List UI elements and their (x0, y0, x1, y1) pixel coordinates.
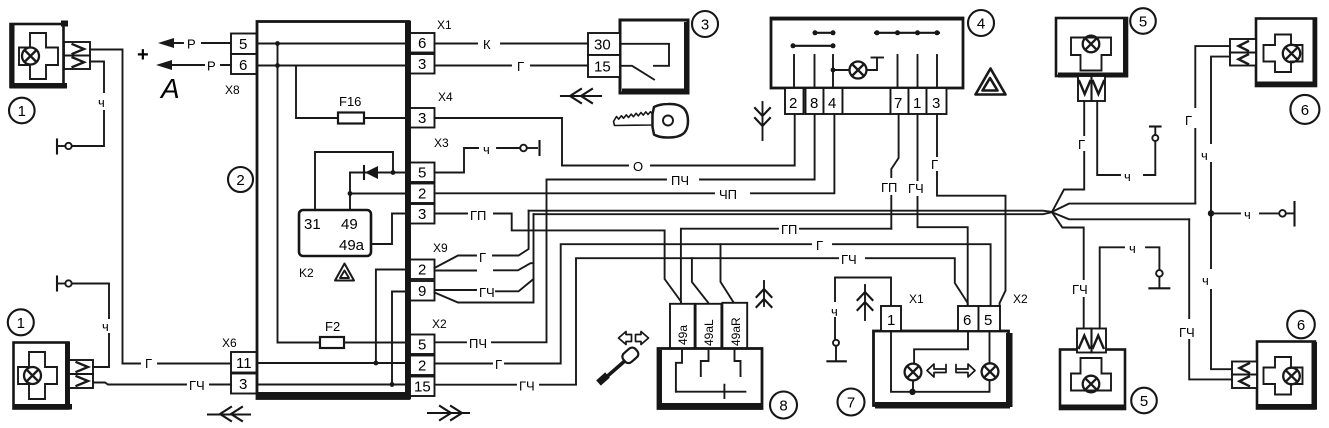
wire Г from hazard pin 3 to cluster X2:5 (931, 114, 1006, 306)
fan branch to side repeater 6 bottom (1052, 212, 1189, 219)
ignition switch 3 body (620, 20, 690, 94)
cluster connector X1 pin 1 (881, 292, 924, 331)
wire X4:3 to О line (435, 118, 563, 166)
fan branch to rear lamp 5 bottom (ГЧ) (1052, 212, 1084, 328)
svg-text:6: 6 (963, 312, 971, 329)
svg-text:6: 6 (239, 57, 247, 74)
svg-text:ГЧ: ГЧ (189, 378, 205, 393)
connector of lamp 5 top (1078, 76, 1105, 101)
svg-text:Г: Г (816, 238, 823, 253)
svg-text:ч: ч (1202, 273, 1209, 288)
svg-text:4: 4 (977, 16, 985, 33)
svg-text:2: 2 (789, 95, 797, 112)
instrument cluster 7 body (874, 331, 1013, 409)
wire relay 31 to X3:5 (315, 152, 393, 210)
rear lamp 5 (top) body (1056, 18, 1128, 78)
svg-text:4: 4 (828, 95, 836, 112)
svg-text:7: 7 (894, 95, 902, 112)
ground symbol (top-left) (57, 140, 72, 154)
key symbol (614, 104, 689, 138)
svg-text:49: 49 (341, 216, 358, 233)
wire X9:9 second branch (435, 279, 534, 303)
junction dot (275, 41, 280, 46)
svg-text:15: 15 (414, 379, 431, 396)
ignition pins 30,15 (588, 33, 620, 77)
turn signal switch 8: pins 49a,49aL,49aR (670, 303, 747, 349)
connector X8 pins 5,6 (225, 34, 257, 98)
svg-text:О: О (633, 159, 643, 174)
wire X9:9 to X2:15 line (inside) (392, 292, 410, 385)
svg-text:Г: Г (1185, 113, 1192, 128)
designator circle 2 (mounting block) (228, 167, 253, 192)
svg-text:3: 3 (418, 56, 426, 73)
wire ГП from hazard pin 7 down (881, 114, 899, 229)
svg-text:1: 1 (18, 103, 26, 120)
svg-text:5: 5 (1139, 14, 1147, 31)
svg-text:Г: Г (931, 157, 938, 172)
wire ч repeater 6 top to ground junction (1201, 57, 1232, 370)
svg-text:X2: X2 (432, 317, 447, 331)
connector of lamp 5 bottom (1077, 329, 1106, 353)
wire Г repeater 6 top (1185, 46, 1230, 204)
svg-text:9: 9 (418, 283, 426, 300)
svg-text:ГЧ: ГЧ (1179, 325, 1195, 340)
svg-text:ГП: ГП (470, 208, 486, 223)
connector of repeater 6 top (1230, 39, 1256, 66)
hazard switch lamp (831, 58, 883, 79)
svg-text:6: 6 (1301, 102, 1309, 119)
wire relay 49a to X3:3 (371, 214, 410, 245)
svg-text:11: 11 (236, 355, 252, 372)
connector of repeater 6 bottom (1232, 362, 1257, 389)
hazard switch 4 body (771, 18, 963, 89)
wire ЧП from X3:2 to hazard switch pin 4 (435, 114, 835, 202)
svg-text:3: 3 (932, 95, 940, 112)
cluster right arrow icon (956, 364, 975, 377)
designator circle 7 (838, 389, 865, 416)
wire Г from lamp1-top to X6:11 (long left vertical) (90, 50, 123, 364)
designator circle 8 (770, 392, 797, 419)
arrow continuation (up) near cluster 7 (858, 285, 873, 320)
ground symbol (near lamp 5 top) (1150, 127, 1161, 142)
switch 8 internal contacts (676, 349, 746, 399)
junction dot on 49 wire (348, 191, 353, 196)
wire F16 to X4:3 (364, 117, 410, 119)
cluster right indicator lamp (982, 363, 999, 380)
svg-text:Г: Г (495, 357, 502, 372)
designator circle 3 (692, 11, 718, 37)
svg-text:ч: ч (1129, 241, 1136, 256)
arrow continuation (up) near switch 8 (757, 281, 772, 307)
wire X6:3 to X2:15 (257, 384, 411, 386)
fuse F16 (338, 94, 364, 124)
svg-text:5: 5 (418, 165, 426, 182)
designator circle 1 (top) (9, 98, 35, 124)
designator circle 1 (bottom) (8, 309, 34, 335)
branch ГЧ to turn switch 49aL (692, 258, 708, 304)
svg-text:5: 5 (418, 337, 426, 354)
wire Г from X1:3 to ignition 15 (435, 59, 589, 74)
relay K2 (299, 210, 371, 280)
svg-text:ГП: ГП (881, 180, 897, 195)
arrow continuation below X6 (208, 407, 250, 421)
svg-text:2: 2 (418, 358, 426, 375)
wire ч lamp 5 top to ground (1097, 101, 1155, 184)
svg-text:2: 2 (236, 172, 244, 189)
turn stalk symbol (599, 332, 649, 384)
svg-text:49а: 49а (676, 325, 690, 345)
wire ГЧ to repeater 6 bottom (1179, 219, 1232, 379)
svg-text:X4: X4 (438, 90, 453, 104)
svg-text:X6: X6 (222, 336, 237, 350)
hazard switch pin stubs (794, 55, 937, 88)
svg-text:K2: K2 (299, 266, 314, 280)
wire ч lamp 5 bottom to ground (1100, 241, 1160, 329)
wire ГП from X3:3 to turn switch 49a (435, 208, 682, 304)
connector X9 pins 2,9 (410, 241, 448, 301)
svg-text:5: 5 (984, 312, 992, 329)
wire ч lamp1-bottom to ground (72, 284, 109, 368)
wire X8:5 to X1:6 (inside block) (257, 43, 411, 45)
svg-text:X1: X1 (437, 18, 452, 32)
mounting block 2 body (257, 21, 411, 399)
connector X3 pins 5,2,3 (410, 136, 449, 224)
svg-text:ч: ч (1124, 169, 1131, 184)
wire ч lamp1-top to ground (72, 62, 104, 147)
lamp 1 (front turn signal, bottom-left) (13, 342, 72, 410)
hazard switch contact bars with dots (791, 30, 940, 48)
svg-text:2: 2 (418, 186, 426, 203)
designator circle 5 (top) (1130, 8, 1156, 34)
svg-text:Р: Р (187, 37, 196, 52)
svg-text:5: 5 (1140, 393, 1148, 410)
fuse F2 (320, 319, 344, 348)
hazard triangle symbol (in block) (335, 264, 354, 281)
cluster left arrow icon (927, 364, 946, 377)
svg-text:ГП: ГП (781, 222, 797, 237)
wire F2 to X2:5 (344, 342, 410, 344)
svg-text:15: 15 (594, 59, 611, 76)
connector X6 pins 11,3 (222, 336, 257, 394)
designator circle 6 (bottom) (1287, 311, 1315, 339)
svg-text:ч: ч (1201, 148, 1208, 163)
svg-text:1: 1 (887, 312, 895, 329)
fan branch to rear lamp 5 top (Г) (1052, 101, 1084, 212)
svg-text:ч: ч (102, 319, 109, 334)
svg-text:К: К (483, 37, 491, 52)
wire X9:2 second branch (435, 263, 534, 270)
ground symbol (near lamp 5 bottom) (1149, 270, 1169, 288)
fan branch to side repeater 6 top (1052, 204, 1195, 212)
svg-text:49аR: 49аR (729, 317, 743, 346)
svg-text:ГЧ: ГЧ (479, 285, 495, 300)
junction dot (275, 63, 280, 68)
designator circle 5 (bottom) (1131, 388, 1157, 414)
svg-text:F2: F2 (325, 319, 340, 334)
wire ч cluster X1:1 to ground (827, 278, 891, 362)
arrow continuation left of ignition (561, 89, 601, 103)
svg-text:Г: Г (1078, 137, 1085, 152)
svg-text:ГЧ: ГЧ (1072, 282, 1088, 297)
connector X2 pins 5,2,15 (410, 317, 447, 396)
cluster left indicator lamp (905, 364, 922, 381)
connector X4 pin 3 (410, 90, 453, 128)
trunk wire A (Г) to right side fan (529, 211, 1052, 212)
junction dot X3:5 wire (391, 170, 396, 175)
rear lamp 5 (bottom) body (1060, 350, 1126, 410)
branch to fuse F16 (296, 66, 338, 119)
connector of lamp 1 top (64, 42, 90, 69)
svg-text:1: 1 (17, 315, 25, 332)
svg-text:ГЧ: ГЧ (519, 379, 535, 394)
designator circle 4 (968, 10, 994, 36)
wire X9:2 to X2:2 line (inside) (376, 270, 410, 364)
ground symbol (right, shared) (1211, 202, 1295, 226)
svg-text:X8: X8 (225, 83, 240, 97)
svg-text:Г: Г (479, 250, 486, 265)
svg-text:3: 3 (239, 376, 247, 393)
wire ПЧ from X2:5 to hazard pin 8 (435, 114, 815, 351)
svg-text:30: 30 (594, 37, 611, 54)
arrow continuation below block (428, 406, 469, 420)
svg-text:2: 2 (418, 262, 426, 279)
svg-text:Г: Г (517, 59, 524, 74)
wire Р (arrow to X8:6) (156, 59, 231, 74)
side repeater 6 (bottom) body (1257, 342, 1317, 410)
svg-text:ПЧ: ПЧ (671, 173, 689, 188)
hazard switch pin boxes 2,8,4,-,7,1,3 (785, 88, 947, 114)
wire ГЧ from X6:3 to lamp 1 bottom (93, 378, 231, 393)
ground symbol (bottom-left) (57, 277, 72, 291)
wire Г from X6:11 to left lamps (123, 356, 232, 371)
svg-text:Г: Г (145, 356, 152, 371)
hazard triangle symbol (large) (976, 69, 1006, 95)
ignition switch contact (620, 44, 669, 80)
trunk wire B (ГЧ) to right side fan (534, 212, 1053, 214)
wire К from X1:6 to ignition 30 (435, 37, 589, 52)
svg-text:X1: X1 (909, 292, 924, 306)
svg-text:8: 8 (810, 95, 818, 112)
wire Р (arrow to X8:5) (158, 37, 231, 52)
svg-text:ПЧ: ПЧ (469, 336, 487, 351)
connector of lamp 1 bottom (69, 360, 93, 388)
svg-text:ч: ч (831, 304, 838, 319)
svg-text:А: А (159, 73, 180, 104)
svg-text:F16: F16 (339, 94, 361, 109)
turn signal switch 8 body (658, 349, 762, 409)
designator circle 6 (top) (1290, 95, 1319, 124)
lamp 1 (front turn signal, top-left) (10, 21, 68, 89)
cluster internal wiring (891, 331, 990, 395)
svg-text:X9: X9 (433, 241, 448, 255)
wire X9:2 split to trunk (Г) (435, 211, 529, 268)
wire X9:9 split to trunk (ГЧ) (435, 214, 534, 300)
svg-text:6: 6 (1297, 317, 1305, 334)
svg-text:Р: Р (207, 59, 216, 74)
svg-text:8: 8 (779, 398, 787, 415)
svg-text:3: 3 (418, 206, 426, 223)
svg-text:3: 3 (701, 17, 709, 34)
svg-text:5: 5 (239, 36, 247, 53)
svg-text:49аL: 49аL (702, 319, 716, 346)
svg-text:7: 7 (847, 395, 855, 412)
svg-text:ч: ч (1244, 207, 1251, 222)
wire relay 49 to X3:2 junction (349, 173, 351, 211)
node +A with arrows P (137, 44, 180, 104)
svg-text:6: 6 (418, 35, 426, 52)
branch Г to turn switch 49aR (721, 244, 734, 304)
connector X1 pins 6,3 (410, 18, 452, 74)
wire to fuse F2 (left inner vertical) (278, 44, 321, 343)
wire О to hazard switch pin 2 (562, 114, 795, 174)
side repeater 6 (top) body (1256, 19, 1317, 87)
arrow continuation (down) near hazard (755, 102, 770, 140)
wire ч from X3:5 to ground (435, 141, 540, 173)
svg-text:31: 31 (304, 216, 321, 233)
svg-text:+: + (137, 44, 149, 66)
svg-text:ГЧ: ГЧ (841, 252, 857, 267)
svg-text:ГЧ: ГЧ (908, 181, 924, 196)
svg-text:49а: 49а (339, 237, 365, 254)
svg-text:X3: X3 (434, 136, 449, 150)
diode (in block) (350, 166, 410, 179)
svg-text:ч: ч (98, 95, 105, 110)
wire X6:11 to X2:2 (257, 362, 411, 364)
svg-text:1: 1 (913, 95, 921, 112)
wire ГЧ net from X2:15 (to 49aL, instrument cluster) (435, 252, 968, 394)
wire ГП branch to hazard pin 7 (681, 222, 891, 304)
wire ГЧ from hazard pin 1 to cluster X2:6 (908, 114, 968, 306)
svg-text:X2: X2 (1013, 292, 1028, 306)
wire X3:2 inside block (350, 193, 410, 195)
svg-text:3: 3 (418, 110, 426, 127)
wire X8:6 to X1:3 (inside block) (257, 65, 411, 67)
svg-text:ч: ч (483, 142, 490, 157)
wire Г net from X2:2 (to 49aR, instrument cluster) (435, 238, 991, 372)
cluster connector X2 pins 6,5 (958, 292, 1028, 331)
svg-text:ЧП: ЧП (719, 187, 737, 202)
